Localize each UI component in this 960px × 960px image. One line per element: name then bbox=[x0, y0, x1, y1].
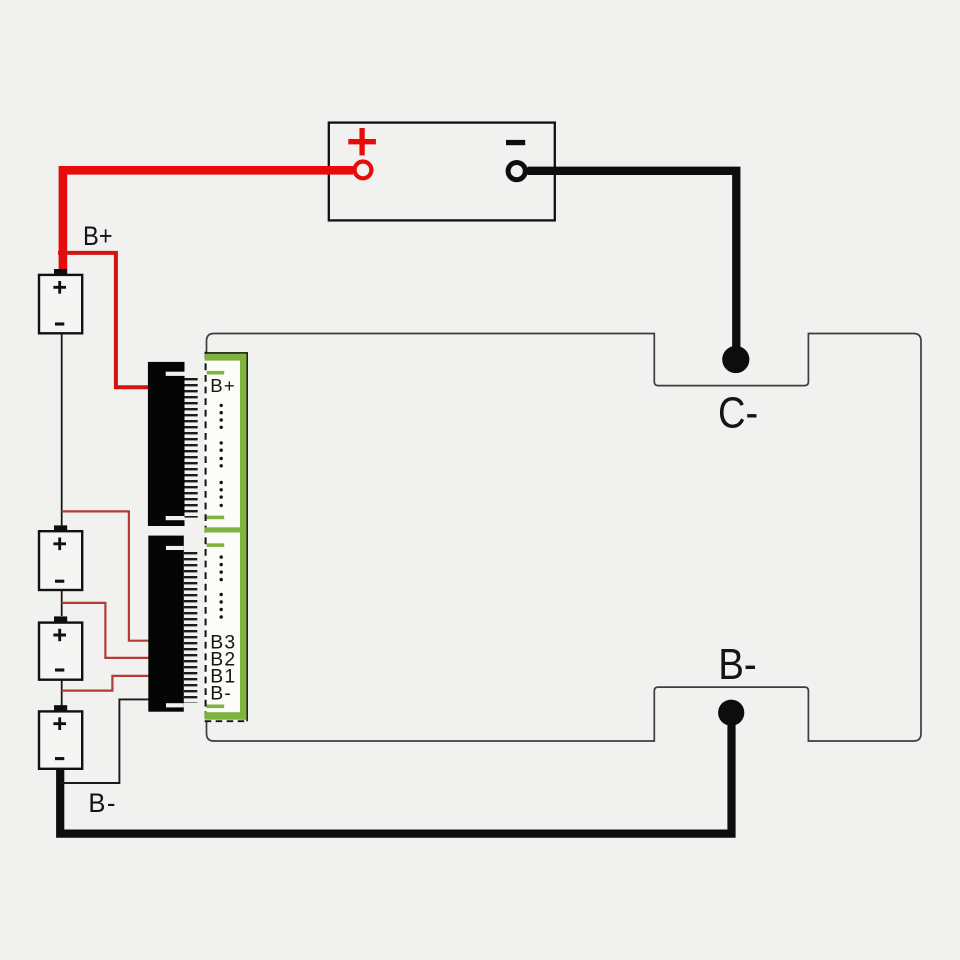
socket strip dark outline right bbox=[246, 352, 248, 721]
socket strip dashed bottom edge bbox=[205, 720, 248, 722]
wire: series link cell1-cell2 bbox=[61, 333, 63, 527]
charger minus symbol bbox=[506, 140, 525, 145]
wire: series link cell2-cell3 bbox=[61, 590, 63, 616]
label B- (pack negative) bbox=[88, 787, 117, 818]
wire: thick black from charger - to C- pad bbox=[528, 171, 737, 348]
BMS board outline bbox=[207, 334, 922, 742]
svg-text:B-: B- bbox=[718, 640, 756, 689]
pin dots group 1 bbox=[220, 404, 223, 429]
svg-text:B+: B+ bbox=[210, 375, 236, 396]
socket green frame right column bbox=[240, 354, 246, 720]
wire: thick red from charger + to cell B+ bbox=[63, 170, 353, 270]
pin dots group 4 bbox=[220, 555, 223, 581]
cell 4 bbox=[39, 705, 82, 769]
svg-text:B-: B- bbox=[88, 787, 117, 818]
wire: thin red B+ sense to connector 1 bbox=[58, 253, 149, 387]
connector plug 1 pins bbox=[185, 375, 198, 518]
socket pin tick B+ bbox=[207, 371, 225, 375]
socket strip dashed left edge bbox=[205, 352, 207, 723]
cell 2 bbox=[39, 525, 82, 590]
socket pin tick (socket2 top) bbox=[207, 543, 225, 547]
socket pin tick (socket1 bottom) bbox=[207, 516, 225, 520]
svg-text:B-: B- bbox=[210, 683, 232, 705]
socket 1 green frame top bbox=[205, 354, 247, 361]
charger negative terminal bbox=[508, 163, 525, 180]
connector plug 2 pins bbox=[184, 551, 198, 703]
socket 2 green frame bottom bbox=[205, 712, 247, 720]
label C- bbox=[718, 388, 758, 437]
charger positive terminal bbox=[355, 162, 372, 179]
charger box bbox=[329, 123, 555, 221]
socket pin tick (socket2 bottom) bbox=[207, 705, 225, 709]
connector plug 2 body bbox=[148, 536, 184, 712]
pin dots group 2 bbox=[220, 441, 223, 467]
socket strip dark outline top bbox=[205, 352, 248, 354]
label B+ (balance wire) bbox=[83, 222, 113, 252]
wire: red balance tap B2 bbox=[62, 603, 149, 658]
C- solder pad bbox=[722, 346, 749, 373]
svg-text:B+: B+ bbox=[83, 222, 113, 252]
label B- (board) bbox=[718, 640, 756, 689]
wire: red balance tap B3 bbox=[62, 511, 149, 640]
cell 1 bbox=[39, 269, 82, 333]
wire: series link cell3-cell4 bbox=[61, 680, 63, 706]
svg-text:C-: C- bbox=[718, 388, 758, 437]
socket divider green bar bbox=[205, 527, 247, 532]
cell 3 bbox=[39, 616, 82, 679]
pin dots group 3 bbox=[220, 481, 223, 507]
pin dots group 5 bbox=[220, 593, 223, 619]
B- solder pad bbox=[718, 700, 744, 726]
wire: thick black from B- pad to cell stack negative bbox=[60, 713, 731, 834]
wire: black balance tap B- bbox=[61, 699, 149, 783]
socket strip white body bbox=[205, 353, 247, 721]
connector plug 1 body bbox=[148, 362, 185, 526]
wire: red balance tap B1 bbox=[62, 676, 149, 691]
charger plus symbol bbox=[348, 128, 376, 155]
